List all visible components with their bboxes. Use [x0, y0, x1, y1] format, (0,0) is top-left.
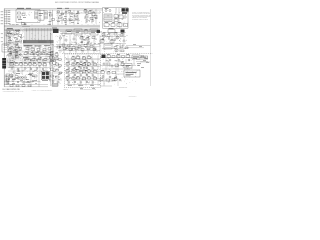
svg-text:( COMPONENT SIDE VIEW OF P.C.B: ( COMPONENT SIDE VIEW OF P.C.B. ) — [3, 91, 25, 93]
svg-text:OPERATION DISPLAY P.W.B.: OPERATION DISPLAY P.W.B. — [80, 87, 97, 90]
svg-text:4312A2900027 1: 4312A2900027 1 — [129, 94, 137, 97]
svg-text:NOTE 3: NOTE 3 — [64, 89, 68, 91]
svg-text:— NOTE : ALL VALUES ARE NOMINA: — NOTE : ALL VALUES ARE NOMINAL — [31, 89, 53, 92]
svg-text:AIR CONDITIONER CONTROL CIRCUI: AIR CONDITIONER CONTROL CIRCUIT WIRING D… — [55, 1, 99, 4]
svg-text:FIG. 1 MAIN CONTROL PWB: FIG. 1 MAIN CONTROL PWB — [3, 88, 20, 91]
svg-text:OUTDOOR UNIT: OUTDOOR UNIT — [119, 87, 128, 89]
